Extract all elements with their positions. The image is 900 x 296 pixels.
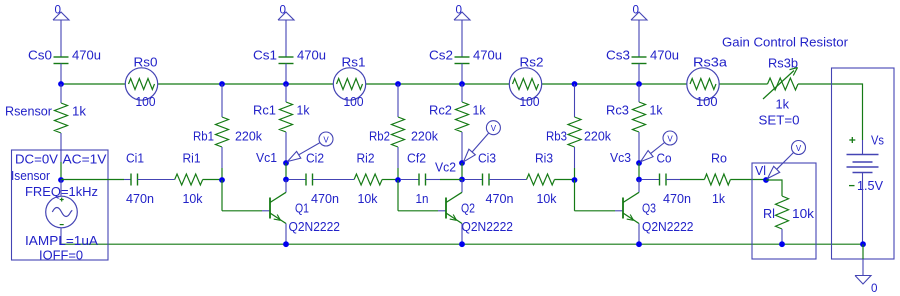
probe V at Vc2 (464, 121, 501, 162)
wire Co to Ro (666, 179, 704, 181)
svg-text:0: 0 (871, 281, 878, 295)
svg-text:1k: 1k (650, 103, 663, 118)
battery Vs (847, 133, 885, 194)
label Rb1 (193, 129, 262, 144)
resistor Rc2 (429, 84, 486, 163)
wire battery top lead (862, 140, 864, 155)
svg-text:100: 100 (136, 94, 156, 109)
capacitor Cf2 (401, 151, 462, 207)
node Rl bottom rail junction (779, 241, 785, 247)
svg-text:100: 100 (344, 94, 364, 109)
node base junction Q1 (219, 177, 225, 183)
node rail junction Rb2 (395, 81, 401, 87)
capacitor Ci1 (126, 151, 154, 207)
capacitor Co (642, 151, 691, 207)
node base junction Q3 (572, 177, 578, 183)
wire Vc2 to coupling node (461, 163, 463, 180)
wire emitter of Q3 to rail (638, 224, 640, 245)
wire top rail right segment to battery (798, 84, 863, 140)
box around Rl (752, 163, 816, 259)
label Gain Control Resistor (722, 35, 849, 50)
svg-text:Ri1: Ri1 (183, 151, 201, 166)
svg-text:0: 0 (456, 3, 463, 17)
node Vc3 (636, 160, 642, 166)
wire Vc3 to coupling node (638, 163, 640, 180)
label Vc2 (435, 160, 456, 175)
svg-text:1k: 1k (297, 103, 310, 118)
node rail junction Rc2 (459, 81, 465, 87)
svg-text:IOFF=0: IOFF=0 (39, 248, 83, 263)
node Isensor output (58, 177, 64, 183)
svg-text:10k: 10k (792, 206, 815, 221)
resistor Rs2 (509, 55, 543, 110)
node rail junction Rb1 (219, 81, 225, 87)
svg-text:220k: 220k (411, 129, 438, 144)
node base junction Q2 (395, 177, 401, 183)
svg-text:1n: 1n (416, 191, 429, 206)
resistor Rb2 (392, 84, 405, 168)
wire Cs2 to rail (461, 64, 463, 85)
label IAMPL=1uA (25, 233, 98, 248)
wire to base of Q1 (222, 210, 270, 212)
wire ground to Cs3 (638, 20, 640, 57)
wire base node down (574, 180, 576, 211)
svg-text:V: V (667, 135, 673, 144)
svg-text:470n: 470n (126, 191, 154, 206)
svg-text:IAMPL=1uA: IAMPL=1uA (25, 233, 98, 248)
transistor Q3 (623, 192, 694, 234)
wire Ci1 to Ri1 (138, 179, 175, 181)
wire Ri1 to base node (203, 179, 222, 181)
svg-text:470u: 470u (650, 48, 679, 63)
wire to base of Q2 (398, 210, 446, 212)
ground 0 (top of Cs3) (631, 3, 647, 21)
svg-text:Rb3: Rb3 (546, 129, 567, 144)
wire ground to Cs1 (285, 20, 287, 57)
resistor Ri1 (175, 151, 203, 207)
svg-text:Cs0: Cs0 (28, 48, 52, 63)
wire top supply rail (61, 83, 768, 85)
svg-text:Ci3: Ci3 (478, 151, 496, 166)
svg-text:Ri3: Ri3 (535, 151, 553, 166)
wire battery bottom lead (862, 173, 864, 245)
box around Isensor (12, 150, 109, 260)
resistor Rb1 (216, 84, 229, 168)
resistor Rs3a (687, 55, 728, 110)
wire Rb1 to base node (221, 168, 223, 180)
svg-text:SET=0: SET=0 (759, 113, 800, 128)
node battery rail junction (860, 241, 866, 247)
wire Ci3 to Ri3 (489, 179, 527, 181)
svg-text:10k: 10k (537, 191, 557, 206)
svg-text:100: 100 (696, 94, 718, 109)
wire Cs1 to rail (285, 64, 287, 85)
svg-text:Vl: Vl (755, 163, 766, 178)
svg-text:Q2: Q2 (461, 201, 475, 216)
svg-text:Rc1: Rc1 (253, 103, 276, 118)
svg-text:Rc3: Rc3 (606, 103, 629, 118)
wire Ri3 to base node 3 (555, 179, 575, 181)
capacitor Cs1 (253, 48, 326, 64)
svg-text:Rs3b: Rs3b (768, 56, 798, 71)
current source Isensor symbol (46, 196, 78, 228)
svg-text:Ro: Ro (711, 151, 727, 166)
resistor Rs3b (variable) (759, 56, 800, 128)
svg-text:Cs2: Cs2 (429, 48, 453, 63)
node rail junction Rc1 (283, 81, 289, 87)
svg-text:10k: 10k (183, 191, 203, 206)
resistor Ro (704, 151, 730, 207)
label IOFF=0 (39, 248, 83, 263)
wire Rsensor to Isensor node (60, 162, 62, 180)
svg-text:470n: 470n (486, 191, 514, 206)
svg-text:Rb2: Rb2 (369, 129, 390, 144)
wire rail to bottom ground (862, 244, 864, 275)
resistor Rb3 (568, 84, 581, 168)
node emitter rail junction 1 (283, 241, 289, 247)
svg-text:1k: 1k (473, 103, 486, 118)
wire base node down (221, 180, 223, 211)
svg-text:Rb1: Rb1 (193, 129, 214, 144)
svg-text:Rs1: Rs1 (342, 55, 366, 70)
svg-text:1k: 1k (776, 97, 790, 112)
node Vc2 (459, 160, 465, 166)
wire base node down (397, 180, 399, 211)
svg-text:Vs: Vs (871, 133, 884, 148)
svg-text:470u: 470u (473, 48, 502, 63)
resistor Rc3 (606, 84, 663, 163)
wire Vc1 to coupling node (285, 163, 287, 180)
node collector coupling junction 3 (636, 177, 642, 183)
wire Isensor to Ci1 (61, 179, 131, 181)
wire emitter of Q2 to rail (461, 224, 463, 245)
node emitter rail junction 3 (636, 241, 642, 247)
svg-text:0: 0 (55, 3, 62, 17)
wire source to bottom rail (60, 228, 62, 244)
capacitor Cs2 (429, 48, 502, 64)
label FREQ=1kHz (25, 184, 98, 199)
transistor Q1 (270, 192, 340, 234)
svg-text:470n: 470n (311, 191, 339, 206)
svg-text:1k: 1k (72, 104, 87, 119)
probe V at Vc1 (288, 132, 334, 162)
wire to base of Q3 (575, 210, 624, 212)
node rail junction Rb3 (572, 81, 578, 87)
svg-text:Q2N2222: Q2N2222 (462, 219, 514, 234)
node rail-source junction (58, 81, 64, 87)
label Vc3 (610, 150, 631, 165)
resistor Rs0 (125, 55, 157, 110)
svg-text:Ri2: Ri2 (357, 151, 375, 166)
capacitor Cs0 (28, 48, 101, 64)
svg-text:Q2N2222: Q2N2222 (289, 219, 341, 234)
capacitor Cs3 (606, 48, 679, 64)
wire Ri2 to base node 2 (382, 179, 398, 181)
label Rb3 (546, 129, 611, 144)
svg-text:10k: 10k (358, 191, 378, 206)
svg-text:470n: 470n (663, 191, 691, 206)
svg-text:0: 0 (633, 3, 640, 17)
resistor Ri2 (354, 151, 382, 207)
svg-text:Ci1: Ci1 (126, 151, 144, 166)
node collector coupling junction 1 (283, 177, 289, 183)
svg-text:AC=1V: AC=1V (63, 152, 107, 167)
resistor Rsensor (5, 84, 87, 162)
svg-text:470u: 470u (297, 48, 326, 63)
svg-text:Cf2: Cf2 (407, 151, 426, 166)
node rail junction Rc3 (636, 81, 642, 87)
node emitter rail junction 2 (459, 241, 465, 247)
label DC=0V (15, 152, 58, 167)
svg-text:Vc3: Vc3 (610, 150, 631, 165)
wire Ro to Vl node (730, 179, 766, 181)
svg-text:V: V (796, 144, 802, 153)
svg-text:Isensor: Isensor (11, 168, 51, 183)
svg-text:Vc2: Vc2 (435, 160, 456, 175)
svg-text:FREQ=1kHz: FREQ=1kHz (25, 184, 98, 199)
transistor Q2 (446, 192, 513, 234)
svg-text:V: V (323, 136, 329, 145)
label Vc1 (256, 150, 277, 165)
wire Cs0 to rail (60, 64, 62, 85)
wire Isensor node to source circle (60, 180, 62, 196)
wire Rb2 to base node (397, 168, 399, 180)
ground 0 (top of Cs1) (278, 3, 294, 21)
svg-text:0: 0 (280, 3, 287, 17)
ground 0 (top of Cs2) (454, 3, 470, 21)
svg-text:Q2N2222: Q2N2222 (642, 219, 694, 234)
svg-text:470u: 470u (72, 48, 101, 63)
label Rb2 (369, 129, 438, 144)
wire Rb3 to base node (574, 168, 576, 180)
wire ground to Cs0 (60, 20, 62, 57)
svg-text:Rs0: Rs0 (134, 55, 158, 70)
wire Vl to Rl (766, 180, 782, 196)
capacitor Ci2 (289, 151, 339, 207)
svg-text:1.5V: 1.5V (857, 178, 883, 193)
svg-text:Rs2: Rs2 (520, 55, 544, 70)
wire ground to Cs2 (461, 20, 463, 57)
svg-text:Rc2: Rc2 (429, 103, 452, 118)
wire to collector of Q2 (461, 180, 463, 193)
ground 0 (top of Cs0) (53, 3, 69, 21)
resistor Rl (763, 196, 815, 244)
resistor Ri3 (527, 151, 557, 207)
svg-text:V: V (491, 124, 497, 133)
svg-text:Ci2: Ci2 (306, 151, 324, 166)
wire emitter of Q1 to rail (285, 224, 287, 245)
node Vl (755, 163, 769, 183)
svg-text:Rs3a: Rs3a (693, 55, 728, 70)
svg-text:Rl: Rl (763, 206, 775, 221)
resistor Rc1 (253, 84, 310, 163)
wire to collector of Q3 (638, 180, 640, 193)
resistor Rs1 (333, 55, 365, 110)
svg-text:Cs3: Cs3 (606, 48, 630, 63)
wire Cs3 to rail (638, 64, 640, 85)
probe V at Vl (768, 141, 806, 179)
svg-text:DC=0V: DC=0V (15, 152, 58, 167)
probe V at Vc3 (641, 131, 678, 162)
svg-text:Q3: Q3 (642, 201, 656, 216)
svg-text:220k: 220k (584, 129, 611, 144)
label Isensor (11, 168, 51, 183)
node Vc1 (283, 160, 289, 166)
svg-text:Vc1: Vc1 (256, 150, 277, 165)
svg-text:100: 100 (520, 94, 540, 109)
capacitor Ci3 (465, 151, 514, 207)
wire to collector of Q1 (285, 180, 287, 193)
node collector coupling junction 2 (459, 177, 465, 183)
ground 0 (bottom right) (855, 276, 878, 296)
svg-text:Cs1: Cs1 (253, 48, 277, 63)
svg-text:Rsensor: Rsensor (5, 104, 53, 119)
wire Ci2 to Ri2 (313, 179, 355, 181)
svg-text:Co: Co (657, 151, 672, 166)
wire bottom ground rail (61, 243, 863, 245)
box around Vs (832, 68, 895, 259)
svg-text:Gain Control Resistor: Gain Control Resistor (722, 35, 849, 50)
svg-text:220k: 220k (235, 129, 262, 144)
label AC=1V (63, 152, 107, 167)
svg-text:Q1: Q1 (295, 201, 309, 216)
svg-text:1k: 1k (712, 191, 725, 206)
